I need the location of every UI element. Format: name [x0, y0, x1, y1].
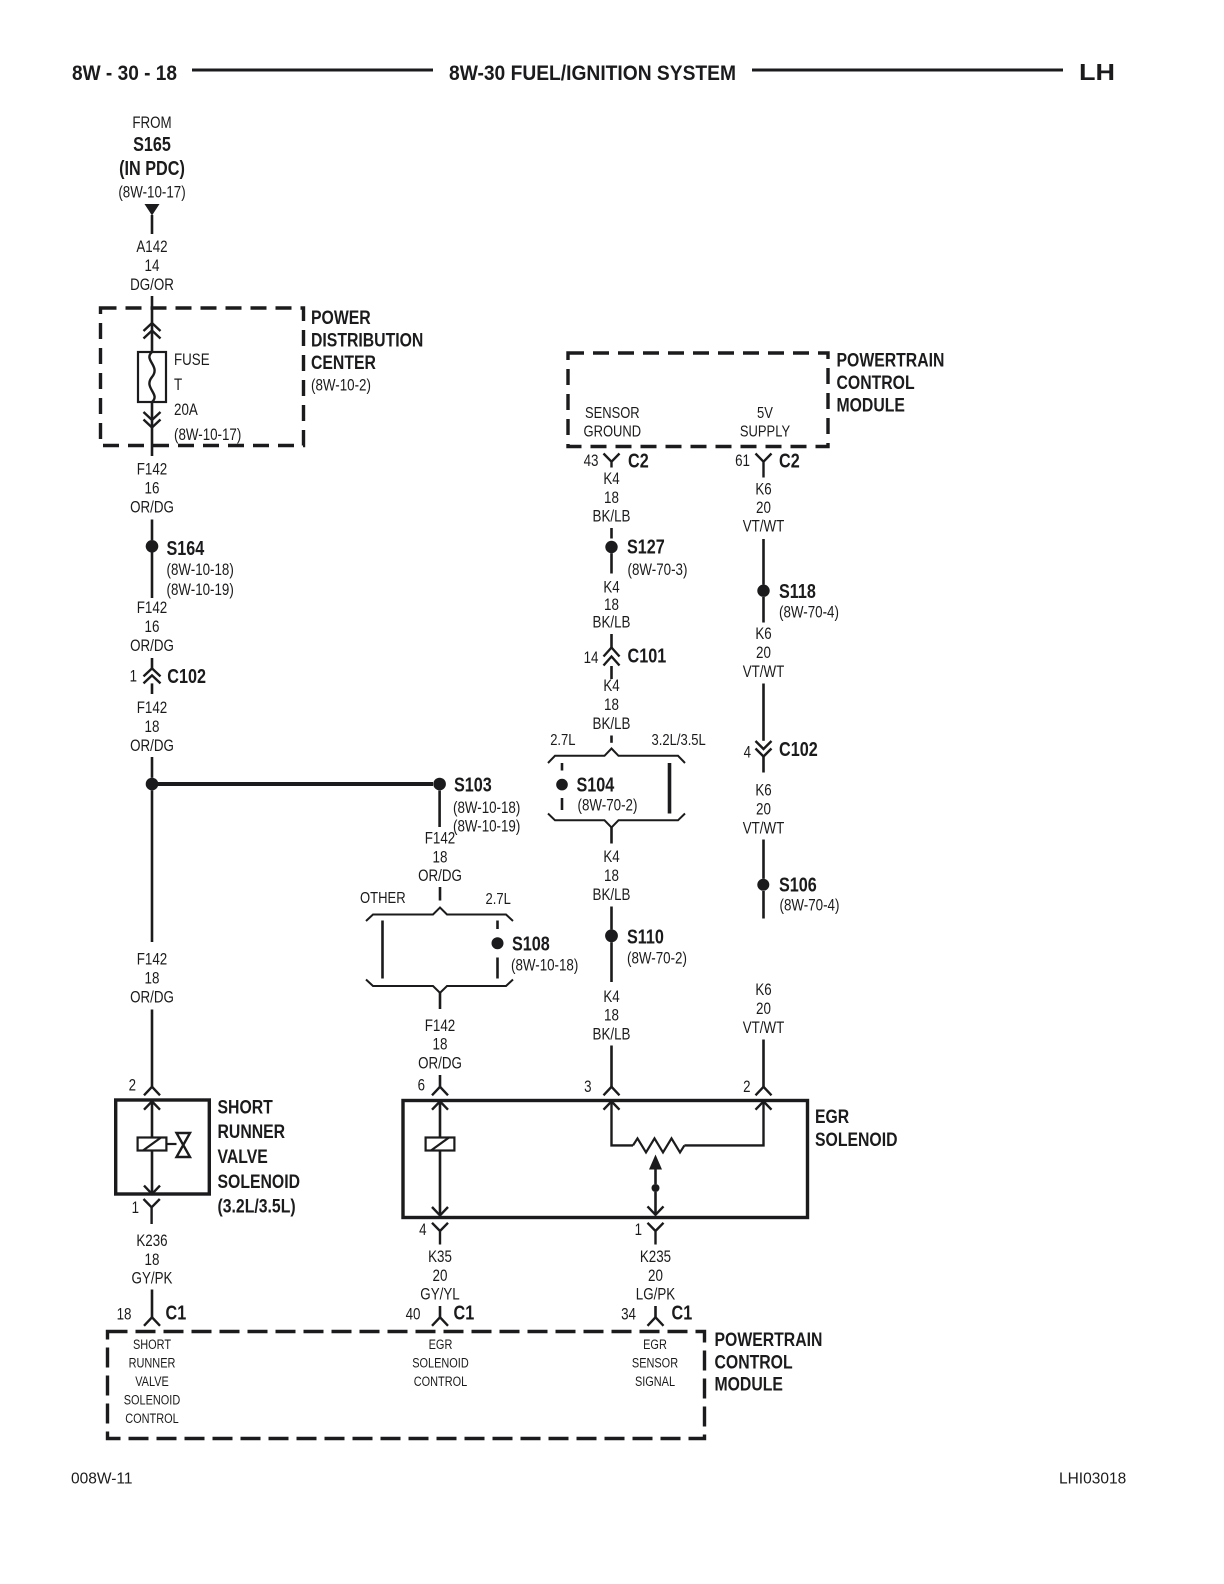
- svg-text:14: 14: [584, 649, 599, 667]
- pin 2 entry arrowhead: [144, 1101, 160, 1109]
- wire: [439, 1101, 442, 1137]
- wire: [654, 1306, 657, 1317]
- connector C1 pin 40: [432, 1317, 448, 1326]
- svg-text:OR/DG: OR/DG: [130, 499, 174, 517]
- wire: [151, 296, 154, 352]
- svg-text:VT/WT: VT/WT: [743, 518, 785, 536]
- svg-text:3: 3: [584, 1078, 591, 1096]
- svg-text:F142: F142: [137, 599, 168, 617]
- branch brace top S104: [548, 749, 685, 764]
- header rule right: [752, 69, 1063, 72]
- svg-text:VT/WT: VT/WT: [743, 819, 785, 837]
- pin 6 entry arrowhead: [432, 1101, 448, 1109]
- svg-text:(8W-70-4): (8W-70-4): [779, 604, 839, 622]
- svg-text:FUSE: FUSE: [174, 351, 210, 369]
- svg-text:SUPPLY: SUPPLY: [740, 423, 790, 440]
- svg-text:(8W-10-19): (8W-10-19): [167, 581, 234, 599]
- wire: [762, 684, 765, 741]
- svg-text:POWERTRAIN: POWERTRAIN: [837, 350, 945, 372]
- svg-text:2: 2: [743, 1078, 750, 1096]
- svg-text:(8W-10-2): (8W-10-2): [311, 377, 371, 395]
- svg-text:OR/DG: OR/DG: [418, 867, 462, 885]
- svg-text:CONTROL: CONTROL: [125, 1411, 179, 1426]
- svg-text:4: 4: [744, 744, 751, 762]
- header rule left: [192, 69, 433, 72]
- svg-text:LG/PK: LG/PK: [636, 1286, 675, 1304]
- svg-text:SHORT: SHORT: [133, 1337, 171, 1352]
- wire: [151, 1010, 154, 1087]
- svg-text:S118: S118: [779, 581, 816, 603]
- svg-text:(8W-70-2): (8W-70-2): [627, 950, 687, 968]
- fuse 20A: [138, 352, 166, 402]
- svg-text:BK/LB: BK/LB: [593, 614, 631, 632]
- svg-text:F142: F142: [425, 830, 456, 848]
- splice S103: [433, 778, 446, 791]
- svg-text:40: 40: [406, 1306, 421, 1324]
- branch brace bottom: [366, 980, 513, 993]
- svg-text:LHI03018: LHI03018: [1059, 1471, 1126, 1488]
- svg-text:4: 4: [419, 1221, 426, 1239]
- wire: [439, 1151, 442, 1215]
- svg-text:F142: F142: [137, 699, 168, 717]
- svg-text:(8W-10-18): (8W-10-18): [511, 957, 578, 975]
- connector C1 pin 18: [144, 1317, 160, 1326]
- svg-text:F142: F142: [137, 951, 168, 969]
- wire stub: [610, 528, 613, 539]
- wire: [762, 539, 765, 585]
- svg-text:S106: S106: [779, 874, 817, 896]
- svg-text:K236: K236: [136, 1232, 167, 1250]
- wire: [496, 958, 499, 979]
- wire: [151, 658, 154, 668]
- powertrain control module box top: [568, 353, 828, 447]
- svg-text:2.7L: 2.7L: [550, 732, 576, 749]
- wire: [610, 666, 613, 679]
- svg-text:008W-11: 008W-11: [71, 1471, 133, 1488]
- svg-text:18: 18: [145, 718, 160, 736]
- wire: [610, 827, 613, 843]
- svg-text:(3.2L/3.5L): (3.2L/3.5L): [218, 1196, 296, 1218]
- power distribution center box: [101, 308, 304, 446]
- svg-text:DG/OR: DG/OR: [130, 276, 174, 294]
- wire: [762, 597, 765, 623]
- wire: [610, 634, 613, 648]
- svg-text:C1: C1: [454, 1303, 475, 1325]
- wire: [762, 757, 765, 773]
- wire: [612, 1101, 634, 1145]
- splice S110: [605, 929, 618, 942]
- svg-text:DISTRIBUTION: DISTRIBUTION: [311, 330, 423, 352]
- wire: [439, 887, 442, 901]
- svg-text:SHORT: SHORT: [218, 1097, 273, 1119]
- svg-text:1: 1: [635, 1221, 642, 1239]
- wiper node dot: [652, 1184, 660, 1192]
- splice S164: [146, 540, 159, 553]
- svg-text:T: T: [174, 376, 182, 394]
- wire branch 3.2L/3.5L: [668, 763, 672, 814]
- wire: [438, 791, 441, 828]
- svg-text:EGR: EGR: [643, 1337, 667, 1352]
- svg-text:S108: S108: [512, 934, 550, 956]
- svg-text:BK/LB: BK/LB: [593, 508, 631, 526]
- wire: [151, 553, 154, 599]
- svg-text:18: 18: [604, 867, 619, 885]
- wire: [762, 1040, 765, 1087]
- svg-text:A142: A142: [136, 238, 167, 256]
- wire: [151, 790, 154, 942]
- svg-text:S165: S165: [133, 134, 171, 156]
- svg-text:SOLENOID: SOLENOID: [412, 1356, 469, 1371]
- svg-text:K4: K4: [603, 677, 619, 695]
- svg-text:OR/DG: OR/DG: [130, 737, 174, 755]
- wire resistor to pin 2: [684, 1101, 763, 1145]
- connector C102 pin 1: [144, 668, 161, 683]
- svg-text:RUNNER: RUNNER: [129, 1356, 176, 1371]
- svg-text:18: 18: [145, 1251, 160, 1269]
- svg-text:S103: S103: [454, 775, 492, 797]
- connector chevrons fuse input: [144, 323, 161, 339]
- svg-text:16: 16: [145, 618, 160, 636]
- wire: [762, 891, 765, 919]
- svg-text:18: 18: [604, 489, 619, 507]
- svg-text:GROUND: GROUND: [584, 423, 642, 440]
- svg-text:K6: K6: [755, 481, 771, 499]
- svg-text:FROM: FROM: [132, 114, 171, 132]
- svg-text:18: 18: [117, 1306, 132, 1324]
- svg-text:18: 18: [604, 696, 619, 714]
- svg-text:18: 18: [604, 1007, 619, 1025]
- wire: [654, 1170, 657, 1185]
- wire: [439, 1306, 442, 1317]
- wire branch 2.7L segment: [561, 763, 564, 771]
- svg-text:20A: 20A: [174, 401, 198, 419]
- svg-text:K35: K35: [428, 1248, 452, 1266]
- arrow from S165: [145, 204, 160, 216]
- connector C2 pin 61: [756, 454, 772, 478]
- connector C2 pin 43: [604, 454, 620, 468]
- svg-text:SENSOR: SENSOR: [585, 405, 640, 422]
- EGR solenoid box: [403, 1101, 808, 1218]
- svg-text:S127: S127: [627, 537, 665, 559]
- svg-text:1: 1: [132, 1199, 139, 1217]
- svg-text:20: 20: [756, 499, 771, 517]
- svg-text:(8W-70-2): (8W-70-2): [578, 797, 638, 815]
- svg-text:(8W-10-17): (8W-10-17): [174, 426, 241, 444]
- wire: [151, 402, 154, 445]
- svg-text:POWERTRAIN: POWERTRAIN: [715, 1329, 823, 1351]
- wire: [151, 445, 154, 456]
- svg-text:OR/DG: OR/DG: [130, 637, 174, 655]
- svg-text:LH: LH: [1079, 59, 1115, 85]
- svg-text:GY/PK: GY/PK: [132, 1270, 173, 1288]
- svg-text:SOLENOID: SOLENOID: [218, 1171, 301, 1193]
- svg-text:OR/DG: OR/DG: [418, 1054, 462, 1072]
- svg-text:K4: K4: [603, 848, 619, 866]
- svg-text:VT/WT: VT/WT: [743, 1019, 785, 1037]
- svg-text:VT/WT: VT/WT: [743, 663, 785, 681]
- solenoid coil EGR: [426, 1138, 455, 1151]
- svg-text:CONTROL: CONTROL: [715, 1351, 793, 1373]
- svg-text:(8W-10-17): (8W-10-17): [118, 184, 185, 202]
- svg-text:MODULE: MODULE: [715, 1374, 783, 1396]
- svg-text:20: 20: [756, 644, 771, 662]
- splice S106: [757, 879, 769, 891]
- wire coil to valve: [166, 1143, 176, 1145]
- svg-text:3.2L/3.5L: 3.2L/3.5L: [652, 732, 707, 749]
- svg-text:C2: C2: [628, 451, 649, 473]
- svg-text:CONTROL: CONTROL: [837, 372, 915, 394]
- svg-text:SENSOR: SENSOR: [632, 1356, 678, 1371]
- pin 2 connector SRV: [144, 1087, 160, 1096]
- wire: [151, 520, 154, 541]
- svg-text:EGR: EGR: [815, 1106, 849, 1128]
- svg-text:18: 18: [433, 1036, 448, 1054]
- pin 1 connector SRV: [144, 1199, 160, 1224]
- svg-text:K235: K235: [640, 1248, 671, 1266]
- pin 4 connector EGR: [432, 1223, 448, 1245]
- svg-text:EGR: EGR: [429, 1337, 453, 1352]
- wire: [151, 1290, 154, 1318]
- svg-text:2.7L: 2.7L: [486, 891, 512, 908]
- svg-text:18: 18: [145, 970, 160, 988]
- svg-text:VALVE: VALVE: [135, 1374, 169, 1389]
- svg-text:61: 61: [735, 452, 750, 470]
- svg-text:C102: C102: [167, 666, 206, 688]
- svg-text:OTHER: OTHER: [360, 890, 406, 907]
- connector chevrons fuse output: [144, 412, 161, 428]
- connector C102 pin 4: [756, 741, 772, 757]
- svg-text:(8W-10-18): (8W-10-18): [167, 561, 234, 579]
- wire: [610, 1046, 613, 1087]
- wire: [439, 1075, 442, 1087]
- svg-text:(8W-70-3): (8W-70-3): [628, 561, 688, 579]
- svg-text:5V: 5V: [757, 405, 773, 422]
- svg-text:K6: K6: [755, 782, 771, 800]
- svg-text:(8W-10-18): (8W-10-18): [453, 799, 520, 817]
- splice S108: [492, 937, 504, 949]
- svg-text:14: 14: [145, 257, 160, 275]
- pin 2 connector EGR: [756, 1087, 772, 1096]
- svg-text:VALVE: VALVE: [218, 1146, 268, 1168]
- connector C101 pin 14: [604, 648, 620, 666]
- svg-text:(8W-10-19): (8W-10-19): [453, 818, 520, 836]
- svg-text:20: 20: [756, 800, 771, 818]
- splice S127: [605, 541, 617, 553]
- svg-text:20: 20: [756, 1000, 771, 1018]
- svg-text:2: 2: [129, 1077, 136, 1095]
- svg-text:S110: S110: [627, 927, 664, 949]
- wire: [151, 1101, 154, 1137]
- wire: [654, 1192, 657, 1215]
- svg-text:SIGNAL: SIGNAL: [635, 1374, 675, 1389]
- svg-text:18: 18: [604, 596, 619, 614]
- splice S118: [757, 585, 769, 597]
- svg-text:K6: K6: [755, 981, 771, 999]
- svg-text:POWER: POWER: [311, 307, 371, 329]
- svg-text:(IN PDC): (IN PDC): [119, 158, 185, 180]
- wire: [151, 683, 154, 694]
- svg-text:20: 20: [433, 1267, 448, 1285]
- svg-text:18: 18: [433, 848, 448, 866]
- junction node: [146, 778, 159, 791]
- wire: [439, 993, 442, 1009]
- wire: [151, 215, 154, 234]
- svg-text:K4: K4: [603, 470, 619, 488]
- svg-text:K4: K4: [603, 579, 619, 597]
- svg-text:K4: K4: [603, 988, 619, 1006]
- svg-text:16: 16: [145, 480, 160, 498]
- wire: [610, 907, 613, 930]
- svg-text:S104: S104: [577, 775, 616, 797]
- svg-text:C1: C1: [672, 1303, 693, 1325]
- svg-text:F142: F142: [425, 1017, 456, 1035]
- svg-text:CONTROL: CONTROL: [414, 1374, 468, 1389]
- wire: [610, 553, 613, 573]
- exit arrowhead down pin 4: [432, 1207, 448, 1215]
- splice S104: [556, 779, 568, 791]
- svg-text:K6: K6: [755, 625, 771, 643]
- wire: [610, 736, 613, 743]
- pin 1 connector EGR: [648, 1223, 664, 1245]
- svg-text:CENTER: CENTER: [311, 352, 376, 374]
- svg-text:GY/YL: GY/YL: [420, 1286, 459, 1304]
- svg-text:C102: C102: [779, 739, 818, 761]
- svg-text:S164: S164: [167, 538, 206, 560]
- svg-text:F142: F142: [137, 461, 168, 479]
- wire branch 2.7L: [496, 921, 499, 930]
- svg-text:BK/LB: BK/LB: [593, 715, 631, 733]
- svg-text:(8W-70-4): (8W-70-4): [780, 897, 840, 915]
- exit arrowhead down pin 1: [648, 1206, 664, 1214]
- connector C1 pin 34: [648, 1317, 664, 1326]
- valve symbol SRV: [177, 1133, 191, 1157]
- wire: [151, 1151, 154, 1194]
- svg-text:SOLENOID: SOLENOID: [124, 1393, 181, 1408]
- powertrain control module box bottom: [108, 1332, 705, 1439]
- svg-text:20: 20: [648, 1267, 663, 1285]
- resistor EGR: [633, 1138, 684, 1152]
- svg-text:OR/DG: OR/DG: [130, 989, 174, 1007]
- svg-text:C1: C1: [166, 1303, 187, 1325]
- svg-text:RUNNER: RUNNER: [218, 1121, 286, 1143]
- svg-text:BK/LB: BK/LB: [593, 886, 631, 904]
- pin 3 entry arrowhead: [604, 1101, 620, 1109]
- svg-text:C2: C2: [779, 451, 800, 473]
- svg-text:8W - 30 - 18: 8W - 30 - 18: [72, 61, 177, 85]
- svg-text:6: 6: [418, 1077, 425, 1095]
- wire: [762, 840, 765, 879]
- svg-text:8W-30 FUEL/IGNITION SYSTEM: 8W-30 FUEL/IGNITION SYSTEM: [449, 61, 736, 85]
- branch brace top: [366, 908, 513, 922]
- svg-text:1: 1: [130, 668, 137, 686]
- wire branch 2.7L segment: [561, 798, 564, 810]
- wire junction to S103: [158, 782, 433, 786]
- pin 2 entry arrowhead: [756, 1101, 772, 1109]
- svg-text:34: 34: [621, 1306, 636, 1324]
- wire: [610, 942, 613, 982]
- pin 6 connector EGR: [432, 1087, 448, 1096]
- svg-text:MODULE: MODULE: [837, 395, 905, 417]
- wire branch OTHER: [381, 921, 384, 979]
- wiper arrow: [649, 1155, 662, 1170]
- wire: [151, 757, 154, 778]
- short runner valve solenoid box: [116, 1100, 210, 1194]
- svg-text:BK/LB: BK/LB: [593, 1025, 631, 1043]
- svg-text:C101: C101: [628, 646, 667, 668]
- pin 3 connector EGR: [604, 1087, 620, 1096]
- svg-text:43: 43: [584, 452, 599, 470]
- branch brace bottom S104: [548, 814, 685, 828]
- exit arrowhead down: [144, 1186, 160, 1194]
- solenoid coil SRV: [138, 1138, 167, 1151]
- svg-text:SOLENOID: SOLENOID: [815, 1129, 898, 1151]
